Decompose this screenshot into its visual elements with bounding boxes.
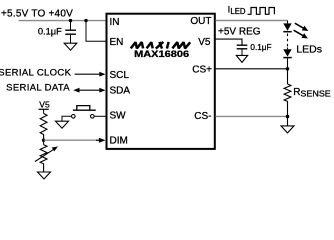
label RSENSE (293, 87, 331, 99)
ground (C2) (236, 55, 247, 62)
wire dashed (more LEDs) (287, 34, 289, 48)
svg-text:LEDs: LEDs (296, 44, 322, 56)
svg-text:+5V REG: +5V REG (218, 27, 261, 38)
potentiometer R2 (35, 140, 58, 172)
svg-text:R: R (293, 87, 300, 98)
junction at C1 (69, 19, 72, 22)
svg-text:V5: V5 (198, 37, 211, 48)
wire SCL arrow (75, 72, 106, 77)
logo MAXIM (131, 42, 190, 49)
svg-text:IN: IN (110, 17, 120, 28)
svg-text:SERIAL DATA: SERIAL DATA (6, 82, 70, 93)
svg-text:CS+: CS+ (192, 64, 212, 75)
waveform ILED pulses (248, 8, 275, 15)
resistor R1 (40, 114, 47, 141)
svg-text:EN: EN (110, 37, 124, 48)
svg-text:V5: V5 (39, 100, 50, 110)
wire OUT to LEDs (216, 20, 288, 22)
wire DIM (44, 138, 106, 143)
svg-text:0.1μF: 0.1μF (250, 43, 271, 52)
wire V5 branch (216, 39, 243, 45)
wire EN branch (86, 21, 106, 42)
svg-text:DIM: DIM (110, 135, 128, 146)
ground (C1) (64, 43, 77, 50)
label ILED (228, 5, 246, 16)
wire CS- (216, 115, 288, 117)
svg-text:CS-: CS- (194, 111, 211, 122)
ground (R2 pot) (38, 172, 51, 179)
junction DIM tap (42, 139, 45, 142)
wire CS+ (216, 68, 288, 70)
svg-text:SCL: SCL (110, 70, 130, 81)
svg-text:SERIAL CLOCK: SERIAL CLOCK (0, 68, 72, 79)
ground (RSENSE) (281, 116, 294, 132)
wire SDA double arrow (73, 88, 105, 93)
svg-text:SENSE: SENSE (300, 90, 331, 99)
svg-text:SDA: SDA (110, 86, 131, 97)
ground (switch) (56, 121, 69, 128)
svg-text:+5.5V TO +40V: +5.5V TO +40V (1, 9, 73, 20)
junction CS+ / LED cathode (286, 67, 290, 71)
svg-text:0.1μF: 0.1μF (38, 26, 62, 36)
capacitor C1 0.1uF (65, 21, 76, 44)
junction CS- / RSENSE (286, 115, 290, 119)
svg-text:MAX16806: MAX16806 (134, 49, 189, 59)
LED D2 (283, 48, 291, 69)
op-amp U1 MAX16806 box (107, 14, 215, 149)
junction at EN branch (84, 19, 87, 22)
LED D1 (283, 21, 291, 32)
wire supply rail to IN (19, 20, 107, 22)
svg-text:SW: SW (110, 110, 127, 121)
svg-text:LED: LED (230, 7, 246, 16)
switch SW pushbutton (62, 106, 106, 121)
node V5 rail (39, 100, 50, 114)
resistor RSENSE (284, 69, 291, 116)
capacitor C2 0.1uF (237, 45, 248, 55)
svg-text:OUT: OUT (190, 16, 211, 27)
LED emission arrows (292, 21, 309, 41)
